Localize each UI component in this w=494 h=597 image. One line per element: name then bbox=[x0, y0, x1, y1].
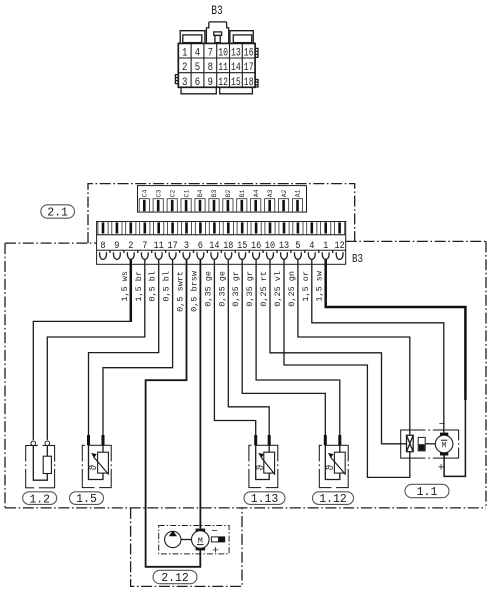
svg-text:17: 17 bbox=[168, 240, 178, 252]
svg-text:16: 16 bbox=[251, 240, 261, 252]
component 1.2 left terminal socket bbox=[31, 441, 36, 446]
svg-text:C4: C4 bbox=[142, 189, 149, 197]
svg-text:6: 6 bbox=[198, 240, 203, 252]
svg-text:ϑ: ϑ bbox=[325, 465, 337, 471]
harness plug B3 pin cells and pins bbox=[98, 222, 345, 235]
svg-text:1,5 sw: 1,5 sw bbox=[315, 270, 325, 302]
thermistor arrow of 1.5 bbox=[94, 457, 109, 475]
svg-text:1.12: 1.12 bbox=[319, 493, 347, 506]
svg-text:7: 7 bbox=[142, 240, 147, 252]
component 1.5 internal wiring bbox=[89, 445, 104, 479]
wiring harness area boundary right edge bbox=[485, 241, 487, 508]
wire 1.5 or: pin 4 to component 1.1 motor negative terminal bbox=[312, 259, 444, 432]
thermistor arrow of 1.13 bbox=[261, 457, 275, 475]
harness plug B3 terminal cups bbox=[100, 252, 343, 259]
svg-text:0,35 ge: 0,35 ge bbox=[217, 271, 227, 307]
svg-text:13: 13 bbox=[231, 48, 241, 60]
harness plug B3 housing bbox=[97, 222, 346, 265]
svg-text:B4: B4 bbox=[197, 189, 204, 197]
wire 0.25 gn: pin 5 to component 1.1 valve top bbox=[298, 259, 410, 435]
wiring harness area boundary left edge bbox=[4, 243, 6, 508]
connector B3 pictorial central latch tab bbox=[206, 22, 228, 44]
component 1.1 boundary box bbox=[401, 429, 460, 459]
component 1.2 boundary box bbox=[25, 444, 56, 489]
connector B3 pictorial right side rib lower bbox=[255, 80, 258, 88]
connector B3 pictorial left side rib bbox=[175, 75, 178, 84]
svg-text:12: 12 bbox=[218, 77, 228, 89]
svg-text:A4: A4 bbox=[253, 189, 260, 197]
thermistor arrow of 1.12 bbox=[331, 457, 346, 475]
svg-text:A2: A2 bbox=[281, 189, 288, 197]
component 1.5 boundary box bbox=[81, 444, 112, 489]
svg-text:3: 3 bbox=[184, 240, 189, 252]
wire 0.5 swrt: pin 3 to component 2.12 motor negative side bbox=[146, 259, 201, 567]
connector B3 pictorial right side rib upper bbox=[255, 48, 258, 57]
svg-text:14: 14 bbox=[231, 62, 241, 74]
component label oval 2.12 bbox=[153, 570, 197, 585]
component label oval 1.13 bbox=[244, 492, 285, 506]
svg-text:10: 10 bbox=[218, 48, 228, 60]
wire 0.35 ge: pin 14 to component 1.13 left terminal bbox=[214, 259, 255, 435]
component 2.12 inner boundary (dashed) bbox=[159, 526, 229, 554]
control unit 2.1 boundary box (dash-dot) bbox=[88, 184, 355, 244]
svg-text:8: 8 bbox=[208, 62, 213, 74]
component label oval 1.12 bbox=[313, 492, 354, 506]
svg-text:16: 16 bbox=[244, 48, 254, 60]
component 1.12 right terminal pin bbox=[338, 435, 341, 445]
thermistor element of 1.12 bbox=[334, 452, 345, 473]
svg-text:C1: C1 bbox=[183, 189, 190, 197]
component 1.12 internal wiring bbox=[325, 445, 340, 479]
svg-text:+: + bbox=[438, 463, 445, 475]
svg-text:9: 9 bbox=[208, 77, 213, 89]
component 1.12 left terminal pin bbox=[324, 435, 327, 445]
valve element of 1.1 bbox=[407, 435, 414, 452]
connector B3 pictorial right shoulder bbox=[230, 31, 253, 44]
svg-text:1.1: 1.1 bbox=[417, 486, 438, 499]
component 1.5 left terminal pin bbox=[87, 435, 90, 445]
svg-text:0,25 vl: 0,25 vl bbox=[273, 271, 283, 307]
component label oval 1.1 bbox=[405, 484, 449, 499]
svg-text:B2: B2 bbox=[225, 189, 232, 197]
svg-text:9: 9 bbox=[114, 240, 119, 252]
svg-text:18: 18 bbox=[223, 240, 233, 252]
svg-text:11: 11 bbox=[154, 240, 164, 252]
svg-text:1.2: 1.2 bbox=[29, 493, 50, 506]
component label oval 1.5 bbox=[70, 492, 104, 506]
svg-text:0,35 gr: 0,35 gr bbox=[231, 271, 241, 307]
svg-text:14: 14 bbox=[209, 240, 219, 252]
component 1.5 right terminal pin bbox=[102, 435, 105, 445]
svg-text:1.13: 1.13 bbox=[251, 493, 279, 506]
svg-text:0,25 rt: 0,25 rt bbox=[259, 271, 269, 307]
svg-text:2: 2 bbox=[182, 62, 187, 74]
svg-text:4: 4 bbox=[309, 240, 314, 252]
component 1.13 right terminal pin bbox=[268, 435, 271, 445]
control unit socket pin cells and pins bbox=[139, 199, 302, 212]
component 1.13 boundary box bbox=[248, 444, 279, 489]
svg-text:B1: B1 bbox=[239, 189, 246, 197]
svg-text:0,35 gr: 0,35 gr bbox=[245, 271, 255, 307]
svg-text:ϑ: ϑ bbox=[88, 465, 100, 471]
svg-text:ϑ: ϑ bbox=[255, 465, 267, 471]
svg-text:15: 15 bbox=[237, 240, 247, 252]
svg-text:C3: C3 bbox=[155, 189, 162, 197]
motor M of 1.1 bbox=[435, 433, 453, 456]
svg-text:7: 7 bbox=[208, 48, 213, 60]
svg-text:0,5 swrt: 0,5 swrt bbox=[176, 271, 186, 312]
wire 0.35 gr: pin 16 to component 1.12 right terminal bbox=[256, 259, 340, 435]
svg-text:15: 15 bbox=[231, 77, 241, 89]
svg-text:M: M bbox=[442, 443, 447, 451]
wiring harness area boundary left top edge bbox=[5, 242, 97, 244]
component label oval 1.2 bbox=[23, 492, 57, 507]
wire 0.25 rt: pin 10 to component 1.1 valve left bbox=[270, 259, 407, 444]
svg-text:B3: B3 bbox=[352, 252, 363, 266]
wire 0.5 bl: pin 11 to component 1.5 left terminal bbox=[89, 259, 159, 435]
svg-text:11: 11 bbox=[218, 62, 228, 74]
wire 1.5 ws: pin 2 to component 1.2 left terminal (thick drop) bbox=[130, 259, 133, 321]
svg-text:5: 5 bbox=[295, 240, 300, 252]
svg-text:1: 1 bbox=[182, 48, 188, 60]
svg-text:0,25 gn: 0,25 gn bbox=[287, 271, 297, 307]
control unit socket housing bbox=[138, 186, 307, 213]
svg-text:+: + bbox=[212, 546, 219, 558]
svg-text:1: 1 bbox=[323, 240, 328, 252]
wire 0.5 brsw: pin 6 to component 2.12 motor positive side bbox=[199, 259, 201, 528]
svg-text:2: 2 bbox=[128, 240, 133, 252]
svg-text:1,5 or: 1,5 or bbox=[301, 271, 311, 302]
pump symbol of 2.12 bbox=[165, 531, 181, 548]
svg-text:4: 4 bbox=[195, 48, 201, 60]
svg-text:1,5 br: 1,5 br bbox=[134, 271, 144, 302]
svg-text:0,5 brsw: 0,5 brsw bbox=[189, 270, 199, 312]
wire 1.5 br: pin 7 to component 1.2 right terminal bbox=[47, 259, 145, 440]
component 1.13 internal wiring bbox=[256, 445, 270, 479]
component 1.2 internal wiring bbox=[33, 446, 47, 481]
component 1.2 right terminal socket bbox=[45, 441, 50, 446]
svg-text:0,35 ge: 0,35 ge bbox=[203, 271, 213, 307]
component label oval 2.1 bbox=[41, 205, 75, 220]
thermistor element of 1.5 bbox=[98, 452, 109, 473]
svg-text:−: − bbox=[439, 419, 446, 431]
svg-text:B3: B3 bbox=[211, 3, 223, 18]
harness plug B3 cup dividers bbox=[110, 250, 333, 253]
wire 0.35 gr: pin 15 to component 1.12 left terminal bbox=[242, 259, 325, 435]
wiring harness area boundary bottom edge bbox=[5, 507, 486, 509]
component 1.12 boundary box bbox=[318, 444, 349, 489]
svg-text:17: 17 bbox=[244, 62, 254, 74]
wire 0.25 vl: pin 13 to component 1.1 valve bottom bbox=[284, 259, 410, 477]
svg-text:5: 5 bbox=[195, 62, 200, 74]
svg-text:3: 3 bbox=[182, 77, 187, 89]
wire 0.5 bl: pin 17 to component 1.5 right terminal bbox=[103, 259, 173, 435]
svg-text:−: − bbox=[211, 526, 218, 538]
svg-text:13: 13 bbox=[279, 240, 289, 252]
svg-text:2.1: 2.1 bbox=[47, 207, 68, 220]
thermistor element of 1.13 bbox=[264, 452, 275, 473]
wire 1.5 sw: pin 1 to component 1.1 motor positive terminal (thick) bbox=[326, 259, 466, 400]
svg-text:C2: C2 bbox=[169, 189, 176, 197]
svg-text:1,5 ws: 1,5 ws bbox=[120, 271, 130, 302]
motor M of 2.12 bbox=[192, 529, 210, 551]
resistor element of 1.2 bbox=[43, 456, 51, 473]
svg-text:A1: A1 bbox=[295, 189, 302, 197]
svg-text:0,5 bl: 0,5 bl bbox=[148, 271, 158, 302]
connector B3 pictorial bottom feet bbox=[181, 87, 252, 94]
component 2.12 boundary box (dash-dot) bbox=[131, 508, 242, 587]
link wire sensor to motor in 1.1 bbox=[425, 443, 435, 445]
svg-text:10: 10 bbox=[265, 240, 275, 252]
svg-text:18: 18 bbox=[244, 77, 254, 89]
svg-text:12: 12 bbox=[335, 240, 345, 252]
wire 0.35 ge: pin 18 to component 1.13 right terminal bbox=[228, 259, 269, 435]
connector B3 pictorial housing outline bbox=[178, 43, 255, 87]
svg-text:6: 6 bbox=[195, 77, 200, 89]
indicator element of 2.12 bbox=[211, 537, 224, 542]
svg-text:1.5: 1.5 bbox=[76, 493, 97, 506]
connector B3 pictorial left shoulder bbox=[180, 31, 205, 44]
svg-text:2.12: 2.12 bbox=[161, 572, 189, 585]
svg-text:A3: A3 bbox=[267, 189, 274, 197]
svg-text:B3: B3 bbox=[211, 189, 218, 197]
connector B3 pictorial cavity numbers 1-18 bbox=[182, 48, 254, 89]
svg-text:8: 8 bbox=[100, 240, 105, 252]
link wire pump to motor in 2.12 bbox=[181, 539, 192, 541]
component 1.13 left terminal pin bbox=[254, 435, 257, 445]
sensor element of 1.1 bbox=[418, 437, 425, 451]
wiring harness area boundary right top edge bbox=[346, 240, 486, 242]
svg-text:0,5 bl: 0,5 bl bbox=[162, 271, 172, 302]
